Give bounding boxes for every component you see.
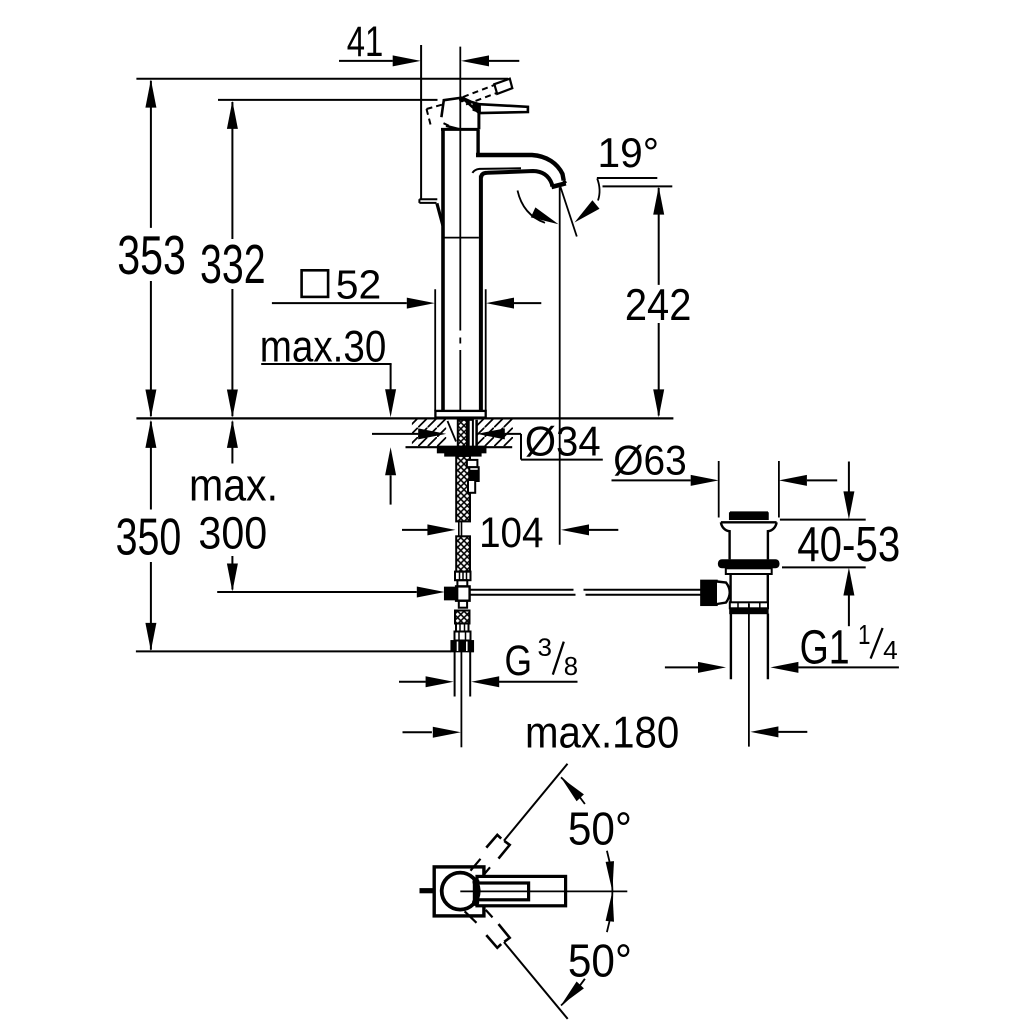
dim line 41 left shaft — [339, 60, 393, 62]
arrow 353 bottom — [145, 390, 156, 418]
dim line G38 right shaft — [499, 681, 578, 683]
arrow max300 bottom — [227, 564, 238, 592]
svg-text:50°: 50° — [568, 935, 632, 987]
aerator corner — [564, 181, 566, 184]
leader underline dia34 — [521, 459, 603, 461]
svg-text:3: 3 — [538, 634, 553, 662]
extension line body left face — [434, 289, 436, 410]
waste flange left side — [721, 522, 730, 559]
arrow dia34 right — [477, 428, 505, 439]
hose fitting line 3 — [466, 572, 468, 581]
50deg upper diagonal line — [504, 764, 568, 841]
spout outlet level line — [603, 185, 673, 187]
svg-text:41: 41 — [347, 18, 384, 65]
lever pivot pin — [459, 97, 465, 103]
arrow 242 top — [653, 187, 664, 215]
waste rod joint wedge — [717, 582, 730, 605]
dim line 350 lower — [150, 562, 152, 650]
dim line 40-53 lower shaft — [848, 596, 850, 627]
50deg lower arc inner segment — [607, 891, 613, 932]
arrow 50deg upper at diagonal — [561, 778, 584, 802]
faucet centerline below tailpipe — [460, 652, 462, 747]
arrow G114 right — [770, 662, 798, 673]
arrow 104 left — [427, 524, 455, 535]
svg-text:4: 4 — [883, 637, 898, 665]
pop-up rod in counter hole — [469, 420, 473, 447]
dim line max30 horizontal — [261, 363, 391, 365]
faucet centerline lower — [459, 350, 461, 411]
arrow G114 left — [698, 662, 726, 673]
lever raised position upper edge dashed — [463, 85, 496, 97]
spout bottom curve — [481, 171, 552, 187]
top reference line (overall height 353) — [136, 78, 508, 80]
dim line max30 vertical lower — [390, 475, 392, 504]
extension line spout outlet vertical — [559, 188, 561, 545]
tee lower stub — [459, 601, 467, 608]
dim line 353 lower — [150, 281, 152, 416]
dim line dia34 right shaft — [505, 433, 521, 435]
thread label G1 1/4 - fraction slash — [871, 628, 883, 659]
G38 hex nut — [451, 641, 473, 652]
arrow 332 top — [227, 101, 238, 129]
backnut below counter — [438, 446, 486, 452]
hose fitting neck — [457, 580, 467, 586]
waste flange right side — [768, 522, 777, 559]
stream swing arc — [518, 191, 546, 223]
svg-text:19°: 19° — [598, 130, 660, 176]
arrow 41 left — [393, 55, 421, 66]
washer below backnut — [445, 453, 481, 457]
svg-text:1: 1 — [858, 619, 871, 650]
arrow 52 left — [407, 298, 435, 309]
flexible hose braid upper section — [456, 456, 470, 522]
svg-text:52: 52 — [336, 262, 382, 308]
arrow 41 right — [461, 55, 489, 66]
dim line max30 vertical upper — [390, 364, 392, 390]
plan lever outer rectangle — [477, 876, 566, 905]
reference line waste seal bottom — [782, 566, 866, 568]
svg-text:Ø34: Ø34 — [525, 418, 601, 465]
dim line max180 right shaft — [778, 731, 807, 733]
waste centerline — [748, 604, 750, 747]
svg-text:max.: max. — [189, 459, 278, 510]
dim line max180 left shaft — [403, 731, 432, 733]
dim line 104 right shaft — [589, 529, 618, 531]
arrow 52 right — [486, 298, 514, 309]
50deg lower arc outer segment — [561, 979, 585, 1006]
extension line rear face x=421 — [420, 45, 422, 199]
plan view body square — [434, 867, 484, 916]
flexible hose braid lower section — [456, 536, 470, 571]
arrow stream swing — [531, 207, 559, 224]
19deg inclined stream line — [560, 184, 577, 237]
lower lever break tick b — [499, 924, 510, 942]
cap rotated outline bottom edge dashed — [444, 123, 457, 129]
pop-up rod guide upper — [467, 460, 478, 467]
dim line 41 right shaft — [489, 60, 519, 62]
arrow 332 bottom — [227, 390, 238, 418]
rotated lever dash lower a — [465, 911, 477, 923]
dim line G114 left shaft — [665, 666, 698, 668]
thread label G3/8 - fraction slash — [553, 642, 564, 675]
waste locknut lower dark — [730, 608, 768, 613]
dim line 52 right — [514, 302, 541, 304]
dim line 332 lower — [231, 289, 233, 416]
arrow 350 bottom — [145, 623, 156, 651]
dim line 332 upper — [231, 102, 233, 239]
arrow pointing to rod tee — [417, 587, 445, 598]
leader step dia34 — [520, 434, 522, 460]
spout root inner line — [472, 168, 521, 173]
arrow max180 left — [433, 727, 461, 738]
svg-text:332: 332 — [200, 234, 266, 295]
extension line body right face — [485, 289, 487, 410]
lever handle horizontal position — [462, 98, 528, 114]
dim line dia63 left — [612, 479, 691, 481]
pop-up rod horizontal bottom left piece — [470, 594, 576, 596]
counter top line — [136, 417, 673, 419]
dim line 350 upper — [150, 422, 152, 510]
arrow G38 left — [426, 676, 454, 687]
lever raised position end cap — [494, 79, 512, 94]
plan view centerline — [460, 890, 627, 892]
reference line (height 332) — [218, 99, 438, 101]
svg-text:350: 350 — [116, 509, 182, 567]
dim line max300 upper — [231, 422, 233, 464]
faucet body top edge / cap joint — [441, 128, 479, 131]
upper lever break tick b — [499, 841, 510, 859]
dim line dia63 right shaft — [807, 479, 837, 481]
dim line 104 left shaft — [402, 529, 428, 531]
rotated lever dash upper a — [471, 859, 481, 871]
locknut line2 — [748, 602, 750, 608]
svg-text:300: 300 — [198, 507, 267, 558]
dim line 353 upper — [150, 81, 152, 228]
reference line at pop-up rod level — [217, 591, 417, 593]
plan pivot dot upper — [472, 878, 479, 885]
extension line dia63 right — [778, 461, 780, 518]
cap rotated bottom overlap — [446, 126, 460, 130]
waste band below seal — [726, 568, 772, 574]
G38 tailpipe right — [469, 652, 471, 697]
arrow 50deg lower at diagonal — [561, 982, 584, 1006]
50deg upper arc outer segment — [561, 777, 585, 804]
svg-text:104: 104 — [479, 509, 543, 556]
faucet body left edge — [441, 130, 445, 411]
faucet centerline short dash — [459, 338, 461, 344]
arrow dia63 right — [779, 475, 807, 486]
svg-text:Ø63: Ø63 — [613, 437, 686, 483]
arrow 353 top — [145, 80, 156, 108]
arrow G38 right — [471, 676, 499, 687]
svg-text:G1: G1 — [800, 621, 850, 674]
arrow max30 up to counter bottom — [385, 447, 396, 475]
svg-text:max.180: max.180 — [525, 708, 679, 757]
arrow 242 bottom — [653, 389, 664, 417]
19deg dimension arc — [597, 179, 599, 201]
lever rod root junction — [473, 101, 481, 113]
arrow dia34 left — [418, 428, 446, 439]
hose fitting line 1 — [459, 572, 461, 581]
spout top curve — [476, 155, 564, 181]
waste body left edge — [729, 574, 731, 602]
pop-up rod horizontal top right piece — [584, 589, 701, 591]
rod tee white block — [456, 586, 470, 600]
waste tailpipe right — [767, 614, 769, 680]
arrow 50deg lower at centerline — [606, 891, 614, 921]
dim line 40-53 upper shaft — [848, 462, 850, 492]
pop-up rod guide dark fill — [470, 470, 477, 480]
rotated lever dash upper b — [484, 867, 491, 875]
svg-text:353: 353 — [117, 225, 186, 286]
dim line 242 upper — [658, 188, 660, 285]
faucet body right edge below spout — [479, 176, 483, 411]
plan lever inner rectangle — [474, 883, 528, 900]
rod tee black block — [445, 587, 458, 599]
plan view cartridge circle — [442, 873, 479, 910]
dim line 242 lower — [658, 323, 660, 416]
svg-text:242: 242 — [625, 281, 692, 330]
counter slab hatching left of faucet shank — [412, 420, 446, 447]
upper lever break tick a — [486, 835, 501, 848]
waste tailpipe left — [730, 614, 732, 680]
19deg reference line upper — [597, 177, 657, 179]
arrow max30 down to counter top — [385, 389, 396, 417]
waste locknut upper — [730, 602, 768, 608]
pop-up rod guide lower — [468, 480, 475, 493]
arrow 350 top — [145, 420, 156, 448]
dim line 52 left — [272, 302, 407, 304]
waste cap top line — [730, 511, 768, 513]
waste flange rim — [721, 521, 777, 523]
svg-text:G: G — [505, 637, 533, 685]
arrow 19deg on inclined line — [575, 200, 600, 222]
hose break inner line right — [461, 521, 463, 536]
faucet base plate — [435, 411, 485, 418]
arrow max180 right — [750, 726, 778, 737]
lower lever break tick a — [486, 935, 501, 948]
waste rod knob black — [701, 580, 717, 605]
spout aerator face — [552, 183, 566, 187]
reference line waste flange underside — [780, 519, 866, 521]
rear housing ledge bottom — [419, 202, 436, 204]
extension line dia63 left — [718, 461, 720, 518]
cap rotated outline top edge dashed — [427, 105, 443, 109]
body joint line — [445, 237, 479, 239]
reference line at G3/8 connector level — [136, 650, 451, 652]
counter bottom line — [406, 446, 513, 448]
lever cap outline — [441, 98, 462, 118]
G38 fitting upper line1 — [459, 624, 461, 632]
G38 fitting lower — [455, 632, 471, 641]
rear housing ledge top — [419, 198, 437, 200]
plan view spout stub — [420, 888, 436, 893]
pop-up rod horizontal bottom right piece — [586, 594, 701, 596]
G38 fitting upper — [456, 624, 469, 632]
counter hole right edge — [475, 420, 478, 446]
G38 tailpipe left — [454, 652, 456, 697]
arrow 50deg upper at centerline — [606, 861, 614, 891]
cap rotated outline left edge dashed — [427, 109, 431, 126]
G38 fitting lower line1 — [458, 632, 460, 641]
faucet body right edge above spout — [476, 130, 479, 155]
rear housing ledge end cap — [418, 199, 420, 203]
lever raised position lower edge dashed — [466, 93, 498, 105]
counter hole clearance line — [448, 421, 457, 442]
arrow max300 top — [227, 420, 238, 448]
arrow 104 right — [561, 524, 589, 535]
dim line G114 right shaft — [798, 666, 899, 668]
dim line G38 left shaft — [399, 681, 426, 683]
dim line max300 lower — [231, 556, 233, 590]
pop-up rod horizontal top left piece — [470, 589, 574, 591]
hose end fitting — [455, 572, 471, 581]
locknut line1 — [737, 602, 739, 608]
rotated lever dash lower b — [486, 910, 493, 918]
50deg lower diagonal line — [504, 942, 568, 1019]
supply hose braid short section below tee — [455, 611, 470, 624]
dim line dia34 left shaft — [372, 433, 418, 435]
pop-up rod guide dark middle — [469, 467, 478, 481]
locknut line3 — [759, 602, 761, 608]
arrow dia63 left — [691, 475, 719, 486]
svg-text:8: 8 — [564, 653, 578, 681]
faucet centerline upper — [459, 47, 461, 331]
square symbol for 52 — [302, 270, 329, 297]
waste body right edge — [767, 574, 769, 602]
cap right edge — [477, 112, 480, 129]
G38 fitting upper line2 — [464, 624, 466, 632]
rear housing taper — [437, 203, 443, 225]
arrow 40-53 down — [843, 491, 854, 519]
threaded shank braid through counter — [458, 420, 467, 447]
waste plug cap — [730, 513, 768, 519]
counter slab hatching right of faucet shank — [477, 420, 513, 447]
50deg upper arc inner segment — [607, 851, 613, 892]
waste rubber seal — [718, 559, 780, 568]
svg-text:50°: 50° — [568, 803, 632, 855]
arrow 40-53 up — [843, 568, 854, 596]
nut slit 1 — [457, 642, 459, 652]
G38 fitting lower line2 — [465, 632, 467, 641]
hose fitting line 2 — [462, 572, 464, 581]
svg-text:40-53: 40-53 — [797, 518, 900, 572]
plan pivot dot lower — [472, 899, 479, 906]
hose break inner line left — [458, 521, 460, 536]
